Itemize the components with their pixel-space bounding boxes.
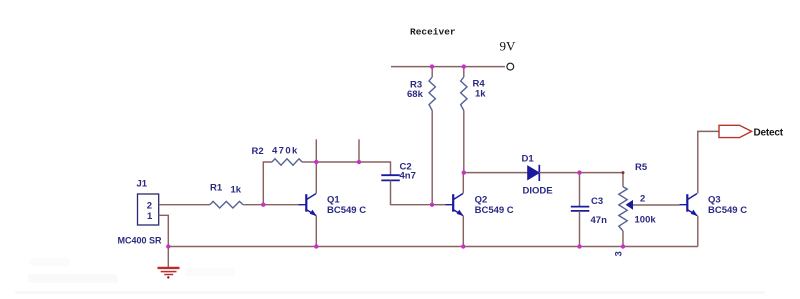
junction Q1 base node bbox=[261, 203, 265, 207]
wire Q2 base node to Q2 bbox=[432, 204, 445, 206]
faint scan artifact bottom left bbox=[15, 291, 765, 294]
resistor R2 bbox=[272, 159, 302, 165]
svg-text:1k: 1k bbox=[475, 89, 486, 100]
wire Q3 collector up and to Detect port bbox=[698, 131, 719, 193]
wire 9V supply rail bbox=[391, 66, 505, 68]
svg-text:1k: 1k bbox=[231, 185, 242, 196]
svg-text:BC549 C: BC549 C bbox=[708, 205, 747, 216]
potentiometer R5 body bbox=[619, 187, 627, 231]
svg-text:DIODE: DIODE bbox=[523, 186, 553, 197]
wire C2 bottom to Q2 base node bbox=[391, 180, 433, 204]
wire stub 2 above Q1 bbox=[358, 139, 360, 162]
wire Q1 collector node to C2 top bbox=[316, 162, 390, 175]
svg-text:100k: 100k bbox=[635, 215, 657, 226]
wire R5 wiper to Q3 base bbox=[633, 204, 679, 206]
wire R3 top lead bbox=[431, 67, 433, 77]
svg-text:470k: 470k bbox=[272, 146, 299, 157]
wire J1 pin1 down to ground rail bbox=[159, 215, 169, 246]
junction R4 top bbox=[462, 64, 466, 68]
junction Q1 emitter rail bbox=[314, 244, 318, 248]
wire Q1 emitter lead bbox=[315, 216, 317, 247]
wire R2 left lead bbox=[263, 162, 272, 205]
capacitor C3 bbox=[579, 173, 581, 207]
wire Q2 emitter lead bbox=[462, 216, 464, 247]
wire R4 top lead bbox=[463, 67, 465, 77]
svg-text:Q1: Q1 bbox=[327, 195, 340, 206]
resistor R1 bbox=[210, 201, 243, 208]
svg-text:MC400 SR: MC400 SR bbox=[118, 236, 163, 246]
resistor R4 bbox=[461, 77, 467, 111]
svg-text:R1: R1 bbox=[210, 183, 223, 194]
wire C3 bottom lead bbox=[579, 211, 581, 247]
svg-text:BC549 C: BC549 C bbox=[327, 205, 366, 216]
junction J1/ground bbox=[166, 244, 170, 248]
wire ground rail bbox=[168, 246, 698, 248]
corner dot at R5 top bbox=[622, 171, 625, 174]
svg-text:47n: 47n bbox=[591, 215, 608, 226]
svg-text:Receiver: Receiver bbox=[410, 27, 456, 38]
wire Q1 collector lead bbox=[315, 162, 317, 193]
connector J1 bbox=[138, 194, 159, 225]
wire R5 bottom lead bbox=[622, 231, 624, 247]
terminal 9V bbox=[507, 63, 514, 70]
junction C3 bottom rail bbox=[577, 244, 581, 248]
svg-text:1: 1 bbox=[147, 211, 153, 222]
svg-text:2: 2 bbox=[147, 201, 152, 212]
wire J1 pin2 to R1 bbox=[159, 204, 210, 206]
junction Q2 collector node bbox=[462, 170, 466, 174]
wire Q2 collector lead bbox=[462, 173, 464, 194]
diode D1 bbox=[528, 166, 540, 180]
svg-text:C3: C3 bbox=[591, 196, 603, 207]
transistor Q3 bbox=[679, 194, 697, 216]
transistor Q1 bbox=[298, 194, 316, 216]
junction Q2 base node bbox=[430, 203, 434, 207]
svg-text:4n7: 4n7 bbox=[400, 171, 416, 182]
junction stub 2 bbox=[357, 160, 361, 164]
svg-text:BC549 C: BC549 C bbox=[475, 205, 514, 216]
port Detect bbox=[719, 125, 752, 137]
wire R4 bottom lead down to Q2 collector node bbox=[463, 111, 465, 173]
junction Q1 collector node bbox=[314, 160, 318, 164]
svg-text:R2: R2 bbox=[252, 146, 264, 157]
capacitor C2 bbox=[381, 175, 400, 180]
wire Q2 collector node to D1 anode bbox=[464, 172, 528, 174]
wire stub above Q1 collector bbox=[315, 139, 317, 162]
wire C3 node to R5 corner bbox=[580, 173, 624, 187]
svg-text:Detect: Detect bbox=[754, 128, 784, 139]
diode D1 cathode bar bbox=[538, 165, 540, 181]
svg-text:68k: 68k bbox=[407, 89, 424, 100]
svg-text:Q3: Q3 bbox=[708, 195, 721, 206]
wire R3 bottom lead down to Q2 base node bbox=[431, 111, 433, 205]
resistor R3 bbox=[429, 77, 435, 111]
junction R3 top bbox=[430, 64, 434, 68]
svg-text:D1: D1 bbox=[522, 154, 535, 165]
wire R1 to Q1 base bbox=[243, 204, 298, 206]
transistor Q2 bbox=[445, 194, 463, 216]
wire Q3 emitter lead bbox=[697, 216, 699, 247]
wire R2 right lead bbox=[302, 161, 316, 163]
svg-text:2: 2 bbox=[640, 194, 645, 205]
svg-text:9V: 9V bbox=[500, 39, 517, 54]
R5 wiper arrow bbox=[626, 200, 633, 210]
svg-text:J1: J1 bbox=[137, 179, 148, 190]
svg-text:R5: R5 bbox=[635, 162, 648, 173]
ground bbox=[167, 247, 169, 268]
svg-text:3: 3 bbox=[614, 251, 625, 256]
junction R5 bottom rail bbox=[621, 244, 625, 248]
wire D1 cathode to C3/R5 bbox=[539, 172, 579, 174]
junction C3 top bbox=[577, 170, 581, 174]
junction Q2 emitter rail bbox=[461, 244, 465, 248]
